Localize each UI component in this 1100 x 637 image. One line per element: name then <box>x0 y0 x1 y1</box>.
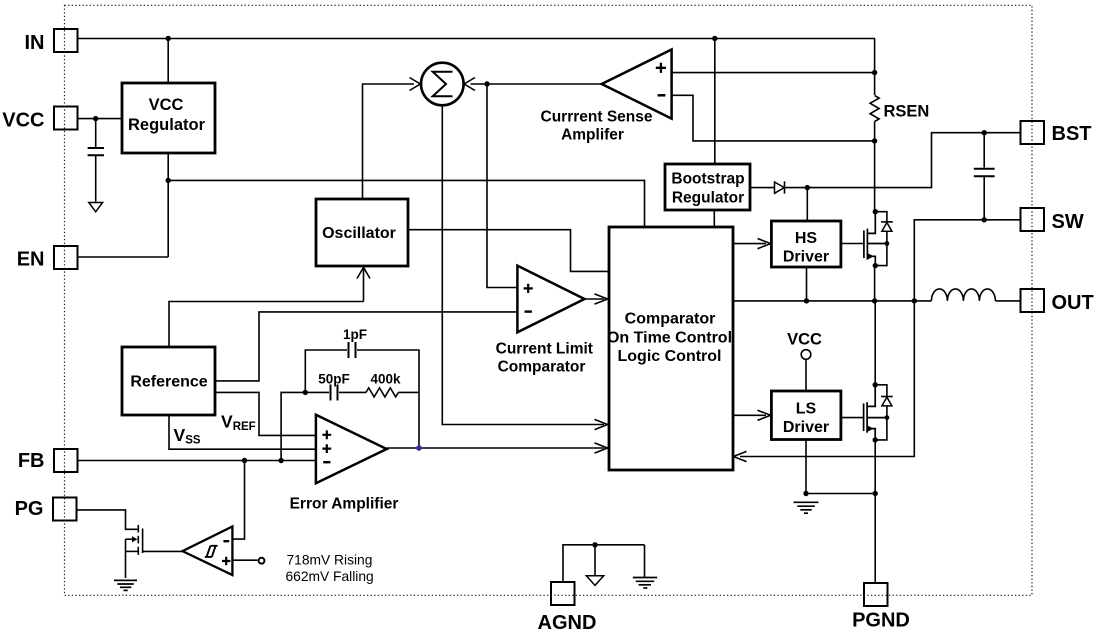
wire EN pad horizontal <box>78 256 169 258</box>
wire comparator to HS driver <box>733 243 766 245</box>
svg-text:PGND: PGND <box>852 610 910 632</box>
wire VCCreg bottom / EN vertical <box>167 153 169 257</box>
wire VCCreg top stub <box>167 39 169 84</box>
svg-text:718mV Rising: 718mV Rising <box>287 553 373 568</box>
terminal threshold open circle <box>259 558 265 564</box>
arrow current limit output into comparator <box>595 294 608 304</box>
inductor output coil <box>931 289 995 301</box>
wire oscillator output to comparator <box>408 230 609 272</box>
wire HS driver bootstrap supply <box>806 188 808 221</box>
svg-text:LS: LS <box>796 401 817 418</box>
svg-text:Bootstrap: Bootstrap <box>671 171 744 188</box>
diode bootstrap <box>775 182 785 193</box>
svg-text:PG: PG <box>15 498 44 520</box>
resistor 400k <box>366 388 398 397</box>
node LS body-diode tap <box>885 415 890 420</box>
ground earth AGND right <box>644 545 646 578</box>
wire diode to BST <box>785 133 1021 188</box>
wire RSEN rail vertical <box>874 39 876 96</box>
svg-text:Regulator: Regulator <box>128 116 206 134</box>
terminal VCC circle <box>801 350 811 360</box>
node IN-VCCreg junction <box>166 36 171 41</box>
node HS source on SW <box>872 298 877 303</box>
box VCC Regulator U-VCCREG <box>122 83 215 153</box>
box Reference <box>122 347 215 415</box>
svg-text:Driver: Driver <box>783 249 829 266</box>
wire LS driver ground stub <box>805 440 807 494</box>
svg-text:RSEN: RSEN <box>884 103 930 121</box>
arrow summer line into comparator <box>595 419 608 429</box>
node BST cap bottom on SW line <box>982 217 987 222</box>
svg-text:Reference: Reference <box>130 374 207 391</box>
node CSA output junction <box>484 81 489 86</box>
wire LS gate <box>841 417 864 419</box>
wire oscillator top to summer <box>363 84 415 199</box>
op-amp U-CSA current sense amplifier <box>602 50 672 119</box>
wire bootstrap supply vertical <box>714 39 716 165</box>
node compensation to output (blue) <box>416 445 422 451</box>
node compensation split <box>303 390 308 395</box>
svg-text:50pF: 50pF <box>318 372 350 387</box>
pad AGND <box>538 582 597 634</box>
node HS driver return <box>804 298 809 303</box>
transistor PG open-drain mosfet <box>126 525 183 578</box>
svg-text:Error Amplifier: Error Amplifier <box>290 496 399 513</box>
svg-text:Comparator: Comparator <box>625 311 716 328</box>
node SW junction <box>912 298 917 303</box>
capacitor 1pF branch <box>305 350 347 392</box>
pad BST <box>1021 121 1092 145</box>
svg-text:1pF: 1pF <box>343 327 367 342</box>
wire VSS to error amp <box>169 415 316 449</box>
node HS drain <box>873 209 878 214</box>
node IN-bootstrap junction <box>712 36 717 41</box>
node LS drain <box>873 382 878 387</box>
svg-text:662mV Falling: 662mV Falling <box>286 569 374 584</box>
node RSEN bottom / CSA minus <box>872 138 877 143</box>
svg-text:Current Limit: Current Limit <box>496 341 593 358</box>
pad EN <box>17 246 78 271</box>
box Comparator / On Time Control / Logic Control <box>607 227 733 470</box>
wire PG comparator plus to threshold terminal <box>233 559 258 561</box>
box HS Driver <box>771 221 841 267</box>
ground open-triangle AGND <box>594 545 596 576</box>
transistor Q-HS high side mosfet <box>864 212 887 266</box>
svg-text:IN: IN <box>25 32 45 54</box>
wire comparator to LS driver <box>733 414 766 416</box>
wire FB line <box>78 460 316 462</box>
svg-text:VCC: VCC <box>2 110 44 132</box>
arrow SW sense into comparator right <box>733 451 746 461</box>
svg-text:Amplifer: Amplifer <box>561 127 624 144</box>
node AGND junction <box>592 542 597 547</box>
svg-text:VCC: VCC <box>787 331 822 349</box>
wire HS driver return stub <box>806 267 808 301</box>
svg-text:SW: SW <box>1052 211 1084 233</box>
pad VCC <box>2 107 77 132</box>
wire AGND network <box>563 545 645 582</box>
ground open-triangle below VCC cap <box>89 203 103 212</box>
wire bootstrap output to diode <box>750 187 775 189</box>
wire enable line to comparator top <box>168 180 644 227</box>
node VCC cap junction <box>93 116 98 121</box>
svg-text:Regulator: Regulator <box>672 190 744 207</box>
resistor RSEN <box>870 96 879 122</box>
wire bootstrap bottom stub <box>713 210 715 227</box>
box Bootstrap Regulator <box>665 164 750 210</box>
pad PGND <box>852 583 910 632</box>
svg-text:Driver: Driver <box>783 419 829 436</box>
svg-text:Currrent Sense: Currrent Sense <box>541 109 653 126</box>
wire LS ground link <box>806 493 875 495</box>
wire CSA plus input <box>672 72 875 74</box>
wire error amp output to comparator <box>387 447 604 449</box>
wire SW to LS drain <box>874 301 876 385</box>
arrow into LS driver <box>758 410 771 420</box>
wire VREF to error amp <box>215 392 316 435</box>
summer sigma circle <box>421 63 464 106</box>
wire CSA junction down to current limit comparator plus <box>487 84 517 288</box>
wire HS source to SW <box>874 266 876 301</box>
capacitor VCC bypass <box>95 119 97 147</box>
wire PG pad to mosfet <box>78 510 138 529</box>
arrow into HS driver <box>758 239 771 249</box>
diode HS body <box>875 212 887 222</box>
op-amp PG comparator (points left) <box>183 527 233 576</box>
svg-text:EN: EN <box>17 249 45 271</box>
node FB to compensation <box>278 458 283 463</box>
transistor Q-LS low side mosfet <box>864 385 887 440</box>
capacitor bootstrap <box>983 133 985 168</box>
wire VCC to LS driver <box>805 359 807 391</box>
pad PG <box>15 498 77 521</box>
svg-text:OUT: OUT <box>1052 292 1094 314</box>
hysteresis symbol <box>205 546 218 557</box>
wire summer right input <box>471 83 602 85</box>
svg-text:FB: FB <box>18 450 45 472</box>
wire PG comparator minus to FB <box>233 461 245 540</box>
wire LS source to PGND <box>874 440 876 583</box>
wire compensation left vertical <box>281 392 305 460</box>
arrow into summer left <box>410 78 421 91</box>
svg-text:Comparator: Comparator <box>498 359 586 376</box>
arrow into summer right <box>464 78 475 91</box>
pad FB <box>18 449 78 472</box>
node RSEN top / CSA plus <box>872 70 877 75</box>
node FB to PG comparator <box>242 458 247 463</box>
svg-text:On Time Control: On Time Control <box>607 330 732 347</box>
wire current limit minus input (VREF) <box>215 312 518 381</box>
wire HS gate <box>841 243 864 245</box>
wire VCC pad to regulator <box>78 118 123 120</box>
ground earth below PG mosfet <box>114 580 137 590</box>
node LS ground junction <box>873 491 878 496</box>
ground earth below LS driver <box>794 502 819 513</box>
wire reference top to oscillator feed <box>169 302 364 348</box>
svg-text:VCC: VCC <box>149 96 184 114</box>
node enable junction <box>166 178 171 183</box>
svg-text:Oscillator: Oscillator <box>322 225 396 242</box>
box Oscillator <box>316 199 408 266</box>
svg-text:Logic Control: Logic Control <box>618 348 722 365</box>
node BST cap top <box>982 130 987 135</box>
wire CSA minus input <box>672 95 875 141</box>
wire summer bottom to comparator <box>442 105 604 424</box>
wire SW node horizontal <box>733 300 931 302</box>
pad IN <box>25 29 78 54</box>
op-amp error amplifier <box>316 415 387 484</box>
capacitor 50pF <box>305 391 329 393</box>
svg-text:AGND: AGND <box>538 612 597 634</box>
arrow error amp output into comparator <box>595 443 608 453</box>
node HS source <box>873 263 878 268</box>
arrow oscillator feed into oscillator bottom <box>363 268 365 302</box>
svg-text:400k: 400k <box>370 372 401 387</box>
node LS driver ground <box>803 491 808 496</box>
diode LS body <box>875 385 887 397</box>
wire current limit output <box>585 298 605 300</box>
svg-text:BST: BST <box>1052 123 1092 145</box>
svg-text:HS: HS <box>795 230 818 247</box>
node LS source <box>873 437 878 442</box>
wire inductor to OUT pad <box>995 300 1020 302</box>
node BST net junction <box>805 185 810 190</box>
wire IN rail top <box>78 38 876 40</box>
pad SW <box>1021 208 1084 233</box>
wire RSEN bottom to HS drain <box>874 122 876 212</box>
op-amp current limit comparator <box>517 266 584 333</box>
wire SW pad line <box>740 220 1021 457</box>
pad OUT <box>1021 289 1094 314</box>
node HS body-diode tap <box>885 241 890 246</box>
box LS Driver <box>771 391 841 440</box>
